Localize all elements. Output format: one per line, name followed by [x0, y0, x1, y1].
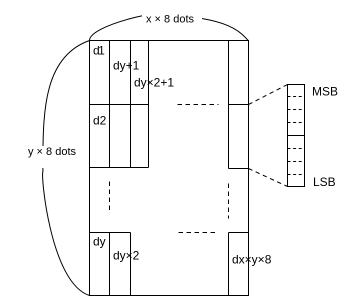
svg-text:dx×y×8: dx×y×8: [232, 253, 272, 267]
svg-text:dy×2+1: dy×2+1: [134, 76, 174, 90]
svg-text:y × 8 dots: y × 8 dots: [28, 146, 77, 158]
svg-text:x × 8 dots: x × 8 dots: [146, 14, 195, 26]
svg-text:LSB: LSB: [313, 175, 336, 189]
svg-text:d1: d1: [93, 44, 105, 58]
svg-text:dy+1: dy+1: [113, 59, 140, 73]
svg-text:dy×2: dy×2: [113, 249, 140, 263]
svg-text:dy: dy: [93, 235, 106, 249]
svg-text:d2: d2: [93, 114, 107, 128]
svg-text:MSB: MSB: [312, 85, 338, 99]
